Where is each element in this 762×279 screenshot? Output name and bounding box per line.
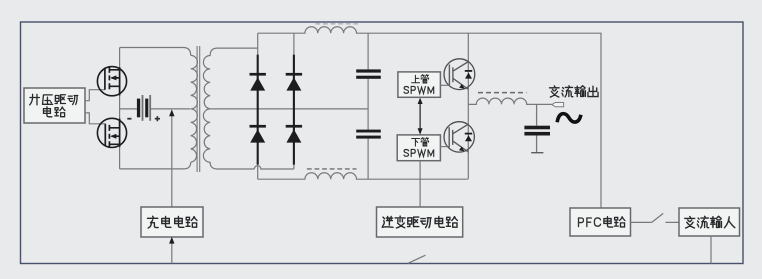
wire top DC bus with inductor xyxy=(258,27,601,208)
diode D3 lead xyxy=(293,55,295,165)
switch between PFC and AC input xyxy=(631,213,680,222)
transistor Q1 upper MOSFET xyxy=(97,67,126,96)
wire gate lower MOSFET xyxy=(85,113,105,124)
inductor L2 core dashes xyxy=(307,168,357,170)
box 交流输入 (AC input) xyxy=(679,208,740,236)
wire bus capacitor column xyxy=(367,33,369,179)
box 上管SPWM (upper SPWM) xyxy=(398,72,441,97)
wire bottom rail to transformer primary xyxy=(120,162,191,169)
wire from inverter drive box up to lower SPWM xyxy=(419,161,421,207)
diode D4 xyxy=(286,125,302,143)
battery B1 xyxy=(120,95,191,121)
wire from bottom line into charging box with arrow xyxy=(169,237,174,264)
wire charging riser with arrow to battery node xyxy=(169,109,174,207)
terminal tag AC output xyxy=(552,103,564,107)
diode bridge right column wires xyxy=(293,33,295,169)
box 下管SPWM (lower SPWM) xyxy=(397,135,440,161)
capacitor C1 xyxy=(356,69,381,78)
box 充电电路 (charging circuit) xyxy=(141,207,203,237)
wire secondary bottom hop over left column xyxy=(254,166,294,169)
wire IGBT leg vertical xyxy=(467,33,469,179)
wire phase output with inductor L3 xyxy=(468,98,552,104)
capacitor C3 output filter xyxy=(524,104,550,152)
wire secondary center tap rail xyxy=(210,108,368,110)
transistor Q2 lower MOSFET xyxy=(97,118,126,147)
wire left vertical rail through MOSFETs xyxy=(119,48,121,169)
diode D3 xyxy=(286,73,302,91)
box 升压驱动电路 (boost drive circuit) xyxy=(24,88,85,123)
wire bottom DC bus with inductor xyxy=(258,173,468,179)
label battery minus xyxy=(127,118,131,120)
wire AC input box to bottom line xyxy=(710,236,712,264)
wire gate upper MOSFET xyxy=(85,90,105,101)
label battery plus xyxy=(155,116,160,121)
capacitor C2 xyxy=(356,130,381,139)
wire top rail to transformer primary xyxy=(120,48,191,56)
switch on bottom line xyxy=(408,255,426,263)
inductor L1 core dashes xyxy=(315,23,358,25)
diode D2 xyxy=(250,125,266,143)
diode D1 lead xyxy=(257,55,259,165)
transistor Q3 upper IGBT xyxy=(440,59,474,90)
inductor L3 core dashes xyxy=(478,92,527,94)
sine wave symbol xyxy=(557,114,581,123)
arrow double between SPWM boxes xyxy=(418,98,423,135)
transformer T1 primary winding xyxy=(191,55,198,162)
box PFC电路 (PFC circuit) xyxy=(570,208,631,236)
transformer T1 secondary winding xyxy=(203,48,257,169)
box 逆变驱动电路 (inverter drive circuit) xyxy=(377,207,463,237)
diode D1 xyxy=(250,73,266,91)
label 交流输出 (AC output) xyxy=(550,86,599,97)
transformer T1 core xyxy=(197,46,200,172)
diode bridge left column wires xyxy=(257,33,259,179)
transistor Q4 lower IGBT xyxy=(440,122,474,152)
